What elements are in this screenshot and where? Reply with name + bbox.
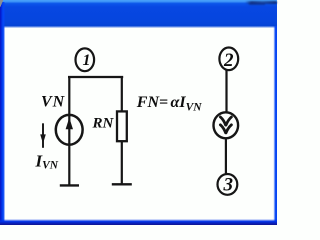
wire left branch vertical [68,76,70,185]
controlled current source FN [214,112,239,138]
svg-text:IVN: IVN [35,152,59,172]
svg-text:1: 1 [83,52,91,69]
wire resistor branch upper [121,76,123,111]
svg-text:2: 2 [223,50,234,71]
svg-text:3: 3 [223,175,234,196]
wire top horizontal [68,76,123,78]
ground bar left [60,184,79,186]
wire right branch lower [225,139,227,173]
ground bar right [112,183,132,185]
resistor RN [117,111,127,141]
svg-text:VN: VN [41,93,66,110]
wire right branch upper [225,71,227,113]
svg-text:FN=: FN= [136,94,168,111]
node 3 [218,174,238,196]
current arrow IVN [40,123,46,148]
current source VN [56,115,83,145]
svg-text:αIVN: αIVN [171,94,203,114]
wire resistor branch lower [121,142,123,184]
node 1 [76,48,95,71]
node 2 [219,48,238,72]
svg-text:RN: RN [92,115,115,131]
